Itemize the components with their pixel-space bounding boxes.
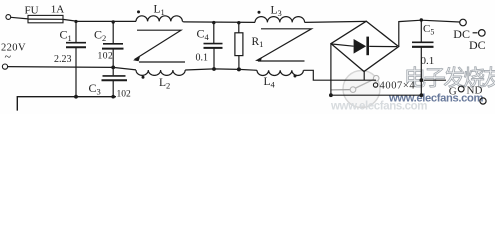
resistor R1 (238, 23, 240, 33)
svg-text:FU: FU (25, 4, 39, 16)
choke core Z2 (259, 29, 312, 60)
output terminal DC+ (460, 19, 467, 26)
terminal small mid (373, 83, 377, 87)
diode cathode bar (366, 37, 369, 56)
capacitor C5 (420, 20, 422, 42)
arrowhead Z1 (133, 57, 140, 62)
arrowhead Z2 (255, 57, 262, 62)
capacitor C4 (213, 23, 215, 44)
junction bridge left leg bottom (329, 93, 333, 97)
wire bridge bottom stub (363, 72, 365, 81)
svg-text:DC: DC (453, 27, 470, 41)
junction C3 earth rail (111, 95, 115, 99)
capacitor C1 (75, 21, 77, 42)
wire bridge right corner up (399, 20, 460, 46)
inductor L1 winding (136, 16, 182, 22)
terminal small right (458, 86, 464, 92)
junction C5 top rail (420, 18, 423, 21)
inductor L2 winding (136, 70, 185, 75)
svg-text:ND: ND (467, 85, 483, 97)
wire ground rail right (331, 94, 422, 96)
svg-text:0.1: 0.1 (421, 55, 435, 67)
wire dc minus rail (331, 79, 376, 81)
wire earth rail bottom left (17, 97, 116, 111)
svg-text:102: 102 (98, 51, 114, 61)
diode triangle (354, 39, 367, 54)
svg-text:DC: DC (469, 38, 486, 52)
wire neutral rail (8, 67, 136, 70)
diode leads (332, 44, 354, 46)
junction C5 bottom (420, 93, 424, 97)
wire top rail mid (182, 21, 255, 22)
inductor L4 winding (257, 70, 303, 75)
fuse FU (28, 15, 63, 22)
phasing dot L1 (137, 10, 140, 13)
input terminal N (2, 64, 7, 69)
svg-text:4007×4: 4007×4 (380, 81, 416, 92)
svg-text:1A: 1A (51, 4, 65, 16)
wire lead to fuse (11, 17, 28, 19)
junction C4 top rail (212, 21, 215, 24)
junction R1 top rail (237, 21, 240, 24)
junction R1 neutral (237, 67, 241, 71)
svg-text:G: G (449, 86, 457, 98)
wire neutral step down to bridge (304, 70, 331, 80)
junction C2-C3 neutral (111, 66, 115, 70)
junction C2 top rail (112, 20, 115, 23)
bridge rectifier diamond (331, 21, 399, 71)
junction C5 dc minus rail (420, 78, 424, 82)
svg-text:102: 102 (117, 90, 132, 100)
wire neutral rail mid (185, 69, 257, 70)
junction C1 earth rail (74, 95, 78, 99)
phasing dot L4 (294, 75, 297, 78)
input terminal L (6, 15, 11, 20)
phasing dot L2 (142, 76, 145, 79)
watermark logo circle (331, 71, 380, 108)
wire top rail to bridge (305, 21, 366, 22)
capacitor C3 (112, 67, 114, 75)
svg-text:~: ~ (5, 50, 12, 64)
svg-text:0.1: 0.1 (196, 53, 209, 64)
inductor L3 winding (255, 17, 305, 23)
choke core Z1 (135, 30, 182, 59)
wire top rail left (63, 19, 136, 21)
wire bridge left corner down (330, 44, 332, 96)
junction C1 top rail (74, 20, 77, 23)
output terminal DC- (473, 32, 478, 34)
capacitor C2 (112, 22, 114, 43)
junction C4 neutral (212, 67, 216, 71)
output terminal GND (480, 98, 486, 104)
phasing dot L3 (258, 11, 261, 14)
svg-text:2.23: 2.23 (54, 54, 72, 65)
